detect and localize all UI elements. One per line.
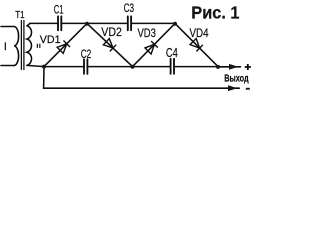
diode VD2 symbol <box>103 38 116 51</box>
output node junction dot <box>216 65 220 69</box>
wire middle rail node V to C4 <box>133 66 171 68</box>
transformer T1 primary winding <box>14 27 19 66</box>
transformer T1 secondary winding <box>27 26 32 66</box>
wire primary bottom lead <box>1 65 14 67</box>
wire secondary top to rail <box>27 23 30 25</box>
svg-text:VD2: VD2 <box>101 25 122 39</box>
svg-text:C3: C3 <box>124 1 135 15</box>
wire bottom rail <box>44 67 240 89</box>
wire secondary bottom to node X <box>27 65 44 66</box>
svg-text:C1: C1 <box>54 2 64 16</box>
wire top rail C3 to node B <box>131 22 175 24</box>
capacitor C1 <box>58 16 61 30</box>
wire middle rail C2 to node V <box>87 66 132 68</box>
diode VD1 symbol <box>57 41 70 54</box>
capacitor C2 <box>84 59 87 74</box>
capacitor C4 <box>171 59 174 74</box>
wire top rail C1 to node A <box>61 22 87 24</box>
wire plus output lead <box>218 66 241 68</box>
minus sign <box>246 88 250 90</box>
node B junction dot <box>173 22 177 26</box>
svg-text:VD1: VD1 <box>40 34 61 46</box>
node A junction dot <box>85 22 89 26</box>
wire top rail left segment (to C1) <box>30 22 58 24</box>
transformer T1 core <box>21 21 24 70</box>
wire middle rail node X to C2 <box>44 66 84 68</box>
wire top rail node A to C3 <box>87 22 128 24</box>
svg-text:VD3: VD3 <box>138 26 157 40</box>
plus output arrowhead <box>229 64 238 70</box>
svg-text:Выход: Выход <box>224 74 249 85</box>
svg-text:Рис. 1: Рис. 1 <box>191 3 240 23</box>
capacitor C3 <box>128 16 131 30</box>
node X junction dot <box>42 65 46 69</box>
minus output arrowhead <box>228 85 237 91</box>
diode VD2 diagonal <box>87 23 133 66</box>
svg-text:T1: T1 <box>15 9 25 21</box>
wire primary top lead <box>1 26 14 28</box>
node V junction dot <box>131 65 135 69</box>
diode VD4 symbol <box>190 38 203 51</box>
svg-text:VD4: VD4 <box>190 26 209 40</box>
diode VD3 diagonal <box>133 23 176 66</box>
diode VD1 diagonal <box>44 23 87 66</box>
diode VD4 diagonal <box>175 23 218 66</box>
svg-text:I: I <box>4 41 7 53</box>
label II (secondary winding) <box>37 44 39 48</box>
svg-text:C4: C4 <box>166 45 178 60</box>
plus sign <box>245 64 251 70</box>
wire middle rail C4 to output node <box>174 66 218 68</box>
svg-text:C2: C2 <box>81 47 92 61</box>
diode VD3 symbol <box>145 41 158 54</box>
